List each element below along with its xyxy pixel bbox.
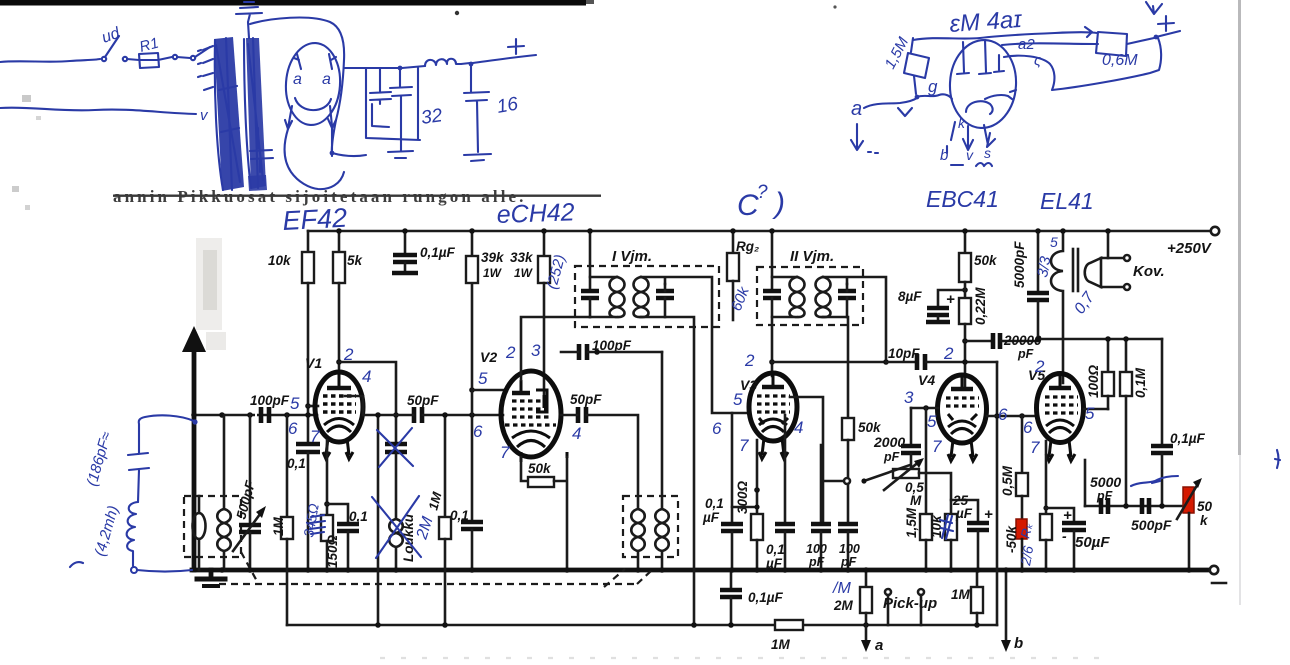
speaker terminals	[1124, 255, 1130, 261]
resistor 39k 1W	[466, 231, 478, 283]
capacitor 500pF feedback	[1142, 498, 1149, 514]
wire tone row	[1038, 338, 1162, 341]
svg-text:300Ω: 300Ω	[735, 480, 750, 514]
node x378	[375, 412, 381, 418]
svg-text:33k: 33k	[510, 250, 534, 265]
capacitor 0,1uF V3 cathode	[721, 413, 743, 570]
capacitor 0,1uF decoupling	[392, 231, 418, 273]
svg-text:0,1µF: 0,1µF	[420, 245, 456, 260]
capacitor 0,1uF tone	[1151, 339, 1173, 506]
capacitor IF2 primary	[763, 291, 781, 376]
svg-text:C: C	[737, 189, 759, 222]
supply terminal	[1211, 227, 1219, 235]
resistor 0,22M	[959, 282, 971, 386]
ground bus	[192, 568, 1208, 573]
blue sketch: filter cap 2	[390, 68, 412, 151]
tube V4 EBC41	[938, 375, 987, 461]
blue sketch: EM tube	[948, 38, 1019, 129]
svg-text:100: 100	[839, 542, 860, 556]
scan artifact: ink dot	[455, 11, 459, 15]
capacitor 5000pF feedback	[1101, 498, 1108, 514]
resistor 50k red-marked	[1016, 519, 1027, 570]
svg-text:EF42: EF42	[282, 203, 348, 236]
resistor Rg2 60k	[727, 231, 739, 320]
blue scribble on 10k resistor label	[940, 515, 953, 539]
svg-text:a: a	[875, 637, 883, 654]
node a tap	[863, 622, 869, 628]
blue sketch: rectifier cathode	[295, 98, 331, 110]
svg-text:V3: V3	[740, 377, 757, 393]
antenna coil secondary	[217, 509, 231, 570]
node V4-V5 grid row	[994, 413, 1000, 419]
svg-text:0,22M: 0,22M	[973, 287, 988, 325]
coil Loukku (wavetrap)	[389, 519, 403, 570]
antenna coil dashed box	[184, 496, 241, 557]
node 8uF tap	[962, 287, 968, 293]
resistor 2M	[860, 570, 872, 625]
node lower wire x378	[375, 622, 381, 628]
node 20000pF tap	[962, 338, 968, 344]
node feedback x1126	[1123, 503, 1129, 509]
blue sketch: arrow top right	[1146, 2, 1162, 14]
chassis ground symbol	[197, 570, 225, 586]
resistor 33k 1W	[538, 231, 550, 394]
svg-text:5000: 5000	[1090, 474, 1121, 490]
resistor 300 ohm	[751, 514, 763, 570]
node lower wire x731	[728, 622, 734, 628]
svg-text:4: 4	[362, 367, 371, 386]
wire IF2 secondary bottom to 50k	[823, 317, 848, 418]
potentiometer 0,5M volume	[893, 469, 919, 478]
wire IF1 primary feed from rail	[589, 231, 592, 291]
node 10k/wireA	[305, 412, 311, 418]
blue sketch: ground top	[236, 2, 262, 38]
blue sketch: output cap ground	[464, 154, 491, 161]
wire AF line to V5 drop	[996, 362, 999, 625]
svg-text:500pF: 500pF	[1131, 517, 1172, 533]
node V3 plate	[769, 359, 775, 365]
blue sketch: primary taps	[198, 46, 213, 90]
svg-text:-: -	[1062, 528, 1067, 544]
svg-text:0,1M: 0,1M	[1133, 367, 1148, 398]
antenna mast	[192, 344, 197, 570]
svg-text:5k: 5k	[347, 253, 364, 268]
svg-text:10pF: 10pF	[888, 346, 920, 361]
capacitor IF2 secondary	[838, 284, 856, 317]
wire 39k drop to bypass	[471, 283, 474, 521]
resistor 100 ohm	[1102, 339, 1114, 409]
svg-text:5: 5	[478, 369, 488, 388]
svg-text:50k: 50k	[528, 461, 552, 476]
transformer core lines	[1073, 249, 1078, 291]
svg-text:1M: 1M	[271, 516, 286, 536]
coil oscillator anode winding	[655, 509, 669, 570]
wire antenna coil secondary top	[223, 415, 226, 509]
svg-text:Kov.: Kov.	[1133, 263, 1165, 280]
svg-text:V2: V2	[480, 349, 497, 365]
blue sketch: lead curves to filter	[285, 128, 344, 189]
svg-text:10k: 10k	[268, 253, 292, 268]
capacitor 0,1 V2 cathode	[461, 522, 483, 570]
IF transformer II Vjm dashed box	[757, 267, 863, 325]
svg-text:16: 16	[495, 93, 520, 117]
wire V3 cathode	[756, 440, 759, 514]
svg-text:EL41: EL41	[1040, 188, 1094, 214]
svg-text:7: 7	[500, 443, 510, 462]
blue sketch: grid squiggle	[915, 95, 920, 100]
node dropper/50pF wire	[393, 412, 399, 418]
coil IF2 secondary	[816, 277, 831, 317]
svg-text:5: 5	[1085, 404, 1095, 423]
blue sketch: top loop around rectifier	[250, 18, 344, 156]
svg-text:100: 100	[806, 542, 827, 556]
svg-text:5000pF: 5000pF	[1012, 241, 1027, 288]
svg-text:V1: V1	[305, 355, 322, 371]
resistor 0,1M	[1120, 339, 1132, 506]
capacitor 25uF	[951, 500, 989, 570]
wire to 0,1uF cathode cap	[732, 506, 757, 509]
svg-text:pF: pF	[883, 450, 900, 464]
resistor 1M grid leak	[281, 415, 293, 625]
svg-text:2M: 2M	[833, 598, 854, 613]
svg-text:1M: 1M	[771, 637, 791, 652]
pick-up terminal 1	[885, 589, 891, 625]
node 39k/50pF wire	[469, 412, 475, 418]
tube V5 EL41	[1037, 374, 1084, 462]
svg-text:pF: pF	[808, 555, 825, 569]
svg-text:5: 5	[1050, 234, 1058, 250]
blue sketch: arrow below a	[851, 124, 863, 150]
svg-text:3: 3	[904, 388, 914, 407]
wire IF1 secondary top to V3 grid	[641, 277, 749, 413]
blue terminal circle	[131, 567, 137, 573]
svg-text:II Vjm.: II Vjm.	[790, 248, 834, 265]
svg-text:M: M	[910, 493, 922, 508]
svg-text:µF: µF	[765, 556, 783, 571]
svg-text:µF: µF	[955, 506, 973, 521]
svg-text:0,1: 0,1	[349, 509, 368, 524]
blue scribble under 345	[310, 515, 325, 534]
blue cross over trimmer	[377, 428, 413, 467]
tube V3 EBC41	[749, 373, 797, 459]
speaker wires	[1101, 258, 1123, 287]
svg-text:0,1: 0,1	[705, 496, 724, 511]
minus mark	[1212, 582, 1226, 585]
capacitor 50pF coupling 1	[414, 407, 422, 423]
resistor 1M V2 grid	[439, 415, 451, 625]
blue mark right edge	[1275, 450, 1280, 468]
capacitor 100pF diode 2	[838, 524, 858, 570]
svg-text:5: 5	[290, 394, 300, 413]
svg-text:6: 6	[1023, 418, 1033, 437]
svg-text:0,6M: 0,6M	[1102, 52, 1138, 69]
tube V2 ECH42	[501, 371, 567, 462]
blue sketch: plus top right	[1158, 16, 1174, 31]
node tone row x1126	[1123, 336, 1129, 342]
wire cathode V1	[326, 440, 329, 515]
node wireA x222	[219, 412, 225, 418]
svg-text:8µF: 8µF	[898, 289, 922, 304]
blue sketch: EM right loop	[1004, 38, 1161, 90]
blue sketch: filter box	[366, 68, 420, 140]
blue sketch: top wire EM	[913, 27, 1097, 40]
svg-text:50µF: 50µF	[1075, 534, 1110, 551]
blue sketch: fuse R1	[127, 53, 172, 68]
blue sketch: EM target wire	[1002, 43, 1098, 45]
node antenna/wireA	[191, 412, 197, 418]
svg-text:Pick-up: Pick-up	[883, 595, 937, 612]
svg-text:100Ω: 100Ω	[1086, 364, 1101, 398]
svg-text:6: 6	[473, 422, 483, 441]
wire IF2 secondary top to V4	[823, 277, 886, 362]
svg-text:pF: pF	[1017, 347, 1034, 361]
resistor 10k	[302, 231, 314, 443]
svg-text:EBC41: EBC41	[926, 186, 999, 212]
blue sketch: wire to transformer	[173, 55, 177, 59]
capacitor 2000pF	[901, 446, 921, 469]
capacitor IF1 secondary	[656, 284, 674, 317]
wire V5 screen row	[1084, 408, 1108, 411]
node 39k/V2 grid	[469, 387, 475, 393]
IF transformer I Vjm dashed box	[575, 266, 719, 327]
blue coil 4,2mh	[127, 502, 138, 566]
wire to cathode bypass cap	[327, 504, 348, 523]
resistor 50k oscillator	[528, 477, 554, 487]
dashed diagonal osc box to chassis	[604, 569, 625, 587]
svg-text:50k: 50k	[974, 253, 998, 268]
coil IF1 secondary	[634, 277, 649, 317]
blue sketch: switch ud	[102, 57, 106, 61]
resistor 150 ohm cathode	[321, 515, 333, 570]
blue sketch: wire to plus	[461, 55, 536, 64]
chassis dashed hook to oscillator box	[637, 571, 651, 584]
svg-text:5: 5	[733, 390, 743, 409]
blue sketch: mains lead bottom	[0, 108, 196, 114]
wire V3 pin4 diode	[790, 397, 823, 523]
svg-text:pF: pF	[840, 555, 857, 569]
svg-text:3: 3	[531, 341, 541, 360]
blue sketch: plus sign	[508, 39, 524, 54]
blue sketch: EM cathode	[966, 90, 1016, 114]
wire plate V1 to dropper	[339, 362, 396, 443]
coil oscillator grid winding	[631, 509, 645, 570]
tube V1 EF42	[315, 372, 363, 459]
blue sketch: heater capacitor	[250, 128, 273, 172]
svg-text:2000: 2000	[873, 434, 905, 450]
svg-text:ς: ς	[1034, 52, 1042, 69]
svg-text:1W: 1W	[483, 266, 503, 280]
svg-text:µF: µF	[702, 510, 720, 525]
arrow a	[861, 625, 871, 652]
resistor 1M to b	[971, 570, 983, 625]
ground terminal	[1210, 566, 1218, 574]
arrow b	[1001, 570, 1011, 652]
node 10k/pin5	[305, 403, 311, 409]
svg-text:5: 5	[927, 412, 937, 431]
svg-text:2: 2	[1034, 357, 1045, 376]
svg-text:g: g	[928, 77, 938, 96]
svg-text:k: k	[958, 115, 966, 131]
pick-up terminal 2	[918, 589, 924, 625]
blue sketch: choke coil	[425, 59, 461, 66]
wire IF2 primary feed from rail	[771, 231, 774, 291]
blue sketch: EM bottom leads	[951, 122, 995, 150]
node plate V1	[336, 359, 342, 365]
wire IF1 primary top	[590, 276, 617, 279]
switch contact circle	[844, 478, 850, 484]
svg-text:v: v	[966, 147, 974, 163]
capacitor 5000pF top	[1027, 231, 1049, 341]
svg-text:2: 2	[744, 351, 755, 370]
svg-text:pF: pF	[1096, 489, 1113, 503]
capacitor 0,1 cathode bypass	[337, 524, 359, 570]
blue sketch: transformer winding left	[214, 37, 244, 191]
node feedback x1162	[1159, 503, 1165, 509]
capacitor 50pF coupling 2	[578, 407, 586, 423]
svg-text:1W: 1W	[514, 266, 534, 280]
node bus junctions	[219, 567, 1192, 573]
wire IF2 primary top	[772, 276, 797, 279]
capacitor 100pF IF wire	[579, 344, 587, 360]
node tone row x1108	[1105, 336, 1111, 342]
wire 50k AVC to contact	[847, 440, 850, 477]
node cathode 50uF tap	[1043, 505, 1048, 510]
svg-text:-50k: -50k	[1004, 524, 1019, 553]
dashed diagonal coil box to chassis	[241, 552, 258, 583]
capacitor 100pF diode 1	[811, 445, 831, 570]
svg-text:a: a	[293, 71, 302, 88]
svg-text:50pF: 50pF	[407, 393, 439, 408]
coil IF2 primary	[772, 277, 805, 317]
blue sketch: top output wire	[344, 66, 425, 68]
node wireA x287	[284, 412, 290, 418]
blue sketch: resistor 0,6M box	[1096, 32, 1127, 56]
capacitor 8uF	[926, 290, 965, 322]
svg-text:+250V: +250V	[1167, 240, 1213, 257]
blue antenna annotation lead	[139, 415, 194, 452]
wire IF1 secondary bottom to AVC	[641, 317, 694, 625]
resistor 1M inline AVC	[775, 620, 803, 630]
wire grid input (wire A)	[194, 414, 317, 417]
wire 50pF line V1-V2	[363, 414, 503, 417]
svg-text:6: 6	[288, 419, 298, 438]
svg-text:150Ω: 150Ω	[325, 534, 340, 568]
capacitor 20000pF	[965, 333, 1038, 349]
svg-text:50: 50	[1197, 499, 1213, 514]
variable capacitor 500pF	[233, 415, 266, 570]
svg-text:4: 4	[794, 418, 803, 437]
wire V4 diode pin3	[911, 407, 938, 410]
node V4 grid cap	[962, 359, 968, 365]
svg-text:7: 7	[1030, 438, 1040, 457]
resistor 5k	[333, 231, 345, 371]
svg-text:0,1: 0,1	[450, 508, 469, 523]
wire 39k to V2 grid	[472, 389, 503, 392]
svg-text:0,1µF: 0,1µF	[748, 590, 784, 605]
wire speaker to rail	[1107, 231, 1110, 258]
svg-text:6: 6	[712, 419, 722, 438]
svg-text:32: 32	[420, 105, 444, 129]
resistor 50k supply	[959, 231, 971, 282]
resistor Rk V5 cathode	[1040, 514, 1052, 570]
svg-text:100pF: 100pF	[250, 393, 290, 408]
scan artifact: speckles top left	[22, 95, 31, 102]
node cathode/bypass	[324, 501, 330, 507]
trimmer capacitor (crossed out)	[385, 444, 407, 519]
svg-text:/M: /M	[832, 580, 851, 597]
node 1M/50pF wire	[442, 412, 448, 418]
switch pivot	[861, 478, 866, 483]
svg-text:+: +	[984, 506, 993, 523]
scan artifact: right edge shadow line	[1238, 0, 1241, 455]
wire diode contact	[823, 480, 843, 483]
svg-text:7: 7	[739, 436, 749, 455]
wire grid row V4 to V5	[987, 415, 1037, 418]
svg-text:εM 4aɪ: εM 4aɪ	[949, 6, 1024, 38]
wire drop x662 to osc coil	[661, 352, 664, 509]
blue squiggle near 500pF	[1131, 476, 1178, 486]
svg-text:2: 2	[943, 344, 954, 363]
wire contact to 100pF	[847, 484, 850, 523]
blue capacitor 186pF	[128, 452, 149, 502]
svg-text:6: 6	[998, 405, 1008, 424]
svg-text:50k: 50k	[858, 420, 882, 435]
switch arm	[864, 465, 910, 481]
svg-text:0,1: 0,1	[766, 542, 785, 557]
blue sketch: wire resistor to plus	[1127, 38, 1154, 44]
blue sketch: output cap 16	[464, 66, 489, 152]
wire feedback row	[1085, 505, 1185, 508]
resistor 0,5M grid V5	[1016, 416, 1028, 519]
blue wire to chassis	[70, 562, 192, 571]
svg-text:a: a	[851, 98, 862, 120]
lower return wire	[287, 624, 997, 627]
wire V1 pin4	[345, 396, 363, 415]
scan artifact: gray smudge left of 10k	[196, 238, 222, 330]
blue sketch: resistor 1,5M	[904, 38, 929, 94]
blue sketch: mains lead top	[0, 59, 100, 62]
capacitor 0,1uF AVC filter	[720, 570, 742, 625]
scan artifact: faint dotted row bottom	[380, 657, 1100, 659]
svg-text:2: 2	[505, 343, 516, 362]
+250V supply rail	[308, 230, 1210, 233]
resistor 1,5M	[920, 408, 932, 570]
wire V3 plate to AF line	[772, 361, 886, 364]
capacitor 10pF	[886, 354, 997, 370]
blue sketch: rectifier leads	[285, 106, 336, 129]
wire V2 triode cathode to 50k	[521, 457, 528, 481]
blue sketch: winding outline loops	[215, 39, 251, 190]
svg-text:eCH42: eCH42	[496, 198, 575, 229]
wire AVC drop x378	[377, 415, 380, 625]
capacitor 0,1 screen bypass	[296, 444, 320, 570]
svg-text:V4: V4	[918, 372, 935, 388]
svg-text:39k: 39k	[481, 250, 505, 265]
blue sketch: filter cap 2 ground	[388, 151, 413, 158]
node lower wire x694	[691, 622, 697, 628]
svg-text:7: 7	[932, 437, 942, 456]
antenna coil primary single loop	[198, 496, 201, 513]
node AF line x886	[883, 359, 889, 365]
node pin3/1,5M	[923, 405, 929, 411]
svg-text:?: ?	[757, 182, 768, 203]
blue sketch: EM plates	[957, 40, 1004, 74]
blue sketch: bottom blob	[248, 175, 267, 191]
blue sketch: rectifier tube	[283, 41, 343, 127]
svg-text:1,5M: 1,5M	[904, 507, 919, 538]
node 100pF row x597	[594, 349, 600, 355]
wire pin5 to tube	[308, 405, 318, 408]
